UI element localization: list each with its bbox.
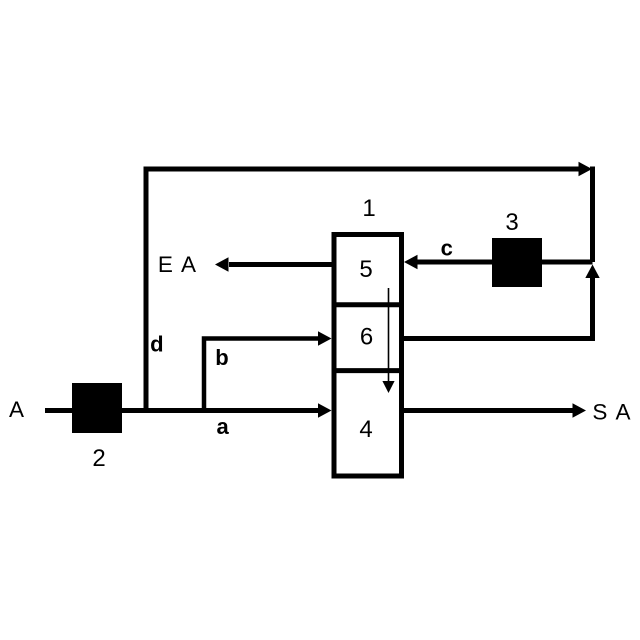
arrowhead: pointing up at c-line <box>585 265 599 279</box>
svg-text:d: d <box>150 332 163 357</box>
svg-text:3: 3 <box>505 209 518 236</box>
svg-text:a: a <box>216 414 229 439</box>
svg-text:2: 2 <box>92 445 105 472</box>
block 1: outer rectangle (cells 5,6,4) <box>334 235 402 477</box>
arrowhead: E A pointing left <box>215 257 229 271</box>
svg-text:S A: S A <box>592 400 632 425</box>
wire: E A output line from block 5 <box>229 262 332 267</box>
svg-text:5: 5 <box>359 256 372 283</box>
svg-text:4: 4 <box>359 416 372 443</box>
block 2: solid black square <box>72 383 122 433</box>
divider between cell 5 and 6 <box>332 302 405 307</box>
svg-text:A: A <box>9 397 24 422</box>
arrowhead b: pointing right into block 6 <box>318 331 332 345</box>
block 3: solid black square <box>492 238 542 287</box>
svg-text:b: b <box>215 345 228 370</box>
arrowhead: top-right pointing right <box>579 162 593 176</box>
arrowhead: c-line pointing left into block 5 <box>404 255 418 269</box>
arrowhead: S A pointing right <box>573 403 587 417</box>
wire: bottom loop from block 6 right side up to c-line <box>403 276 593 339</box>
wire: right vertical upper segment <box>590 167 595 263</box>
wire b: branch vertical and horizontal into block 6 <box>204 339 319 411</box>
svg-text:1: 1 <box>362 195 375 222</box>
wire: main input A horizontal line <box>45 408 319 413</box>
wire: S A output line from block 4 <box>403 408 573 413</box>
svg-text:6: 6 <box>360 324 373 351</box>
divider between cell 6 and 4 <box>332 368 405 373</box>
svg-text:c: c <box>441 235 453 260</box>
wire c: horizontal line from right vertical through block 3 to block 5 <box>409 260 593 265</box>
arrowhead a: pointing right into block 4 <box>318 403 332 417</box>
svg-text:E A: E A <box>158 252 198 277</box>
wire: feedback loop d-vertical and top horizontal <box>146 169 580 411</box>
thin arrow inside block 1 from cell 5 down into cell 4 <box>388 288 390 382</box>
